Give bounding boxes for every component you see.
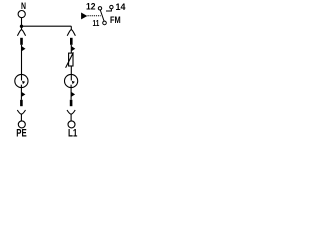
FM contact terminal 14: [110, 5, 113, 8]
FM mechanical link dashed wire: [88, 15, 101, 17]
thermal disconnect bar right top: [70, 38, 73, 45]
disconnect arrow right bottom: [71, 92, 75, 97]
wire right mid: [70, 66, 72, 81]
thermal disconnect bar left top: [20, 38, 23, 45]
wire horizontal bus: [22, 25, 72, 27]
FM actuator arrow: [81, 13, 87, 20]
disconnect arrow left bottom: [22, 92, 26, 97]
svg-text:L1: L1: [68, 128, 77, 140]
spark gap left: [15, 74, 28, 87]
terminal PE: [18, 121, 25, 128]
wire left mid: [21, 45, 23, 81]
terminal N: [18, 11, 25, 18]
svg-text:11: 11: [93, 18, 100, 28]
svg-text:FM: FM: [110, 15, 121, 26]
wire N terminal to junction: [21, 18, 23, 27]
spark gap right inner arrow: [72, 81, 75, 84]
wire right lower: [70, 85, 72, 100]
varistor right: [69, 53, 73, 66]
wire stub right bottom: [70, 114, 72, 121]
wire stub right top: [70, 26, 72, 30]
spark gap right: [65, 74, 78, 87]
FM contact lever: [100, 10, 104, 21]
disconnect point arc right top: [67, 30, 75, 36]
svg-text:14: 14: [116, 2, 127, 13]
thermal disconnect bar right bottom: [70, 100, 73, 106]
terminal L1: [68, 121, 75, 128]
FM contact 14 seat: [106, 9, 111, 11]
disconnect point arc left top: [17, 30, 25, 36]
FM contact terminal 11: [103, 21, 107, 25]
wire left lower: [20, 85, 22, 100]
wire right upper: [70, 45, 72, 53]
svg-text:12: 12: [86, 2, 96, 13]
thermal disconnect bar left bottom: [20, 100, 23, 106]
wire stub left bottom: [20, 114, 22, 121]
varistor diagonal: [66, 52, 74, 67]
disconnect point arc right bottom: [67, 110, 75, 114]
disconnect point arc left bottom: [17, 110, 25, 114]
node junction N: [20, 25, 23, 28]
disconnect arrow right top: [72, 46, 76, 51]
disconnect arrow left top: [22, 46, 26, 51]
svg-text:PE: PE: [16, 128, 26, 140]
FM contact terminal 12: [98, 7, 101, 10]
wire stub left top: [21, 26, 23, 30]
spark gap left inner arrow: [22, 81, 25, 84]
